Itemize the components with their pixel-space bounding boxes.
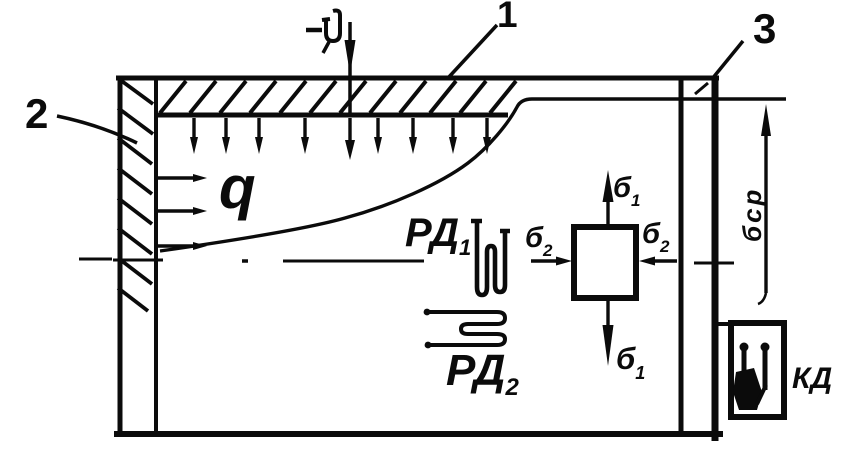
central load arrow: [345, 22, 356, 113]
sensor KD box: [731, 323, 784, 417]
KD box link to wall: [712, 322, 731, 326]
axis centerline: [79, 259, 734, 263]
right wall inner line: [679, 79, 684, 433]
distributed load arrows under plate: [194, 118, 487, 144]
sensor RD2 coil: [427, 312, 505, 345]
svg-text:3: 3: [753, 5, 776, 52]
sigma1 arrow down: [603, 300, 614, 366]
KD sensor prongs: [744, 350, 765, 396]
svg-text:КД: КД: [792, 362, 832, 395]
sigma2 arrow left side: [531, 257, 572, 266]
melt boundary curve: [160, 99, 786, 251]
sigma cp arrow: [758, 104, 771, 304]
KD sensor blob: [733, 368, 762, 410]
chamber bottom line: [114, 431, 723, 437]
sigma2 arrow right side: [639, 257, 677, 266]
right wall outer line: [712, 77, 719, 441]
svg-text:2: 2: [25, 90, 48, 137]
plate 1 bottom line: [154, 113, 508, 118]
omega load symbol: [306, 11, 340, 54]
pointer line to label 1: [448, 25, 497, 78]
left wall hatching: [118, 79, 153, 311]
stress element square: [574, 227, 636, 298]
svg-text:q: q: [219, 154, 256, 221]
corner weld tick: [695, 83, 708, 94]
chamber top line: [116, 76, 719, 81]
svg-text:бср: бср: [737, 187, 767, 242]
left wall inner line: [154, 78, 158, 434]
svg-text:1: 1: [497, 0, 518, 35]
pointer line to label 3: [712, 41, 743, 79]
left wall outer line: [118, 76, 123, 437]
sigma1 arrow up: [603, 170, 614, 226]
pointer line to label 2: [57, 116, 137, 143]
sensor RD1 coil: [471, 221, 510, 295]
plate 1 hatching: [160, 81, 516, 113]
heat flux arrows q: [158, 178, 196, 246]
